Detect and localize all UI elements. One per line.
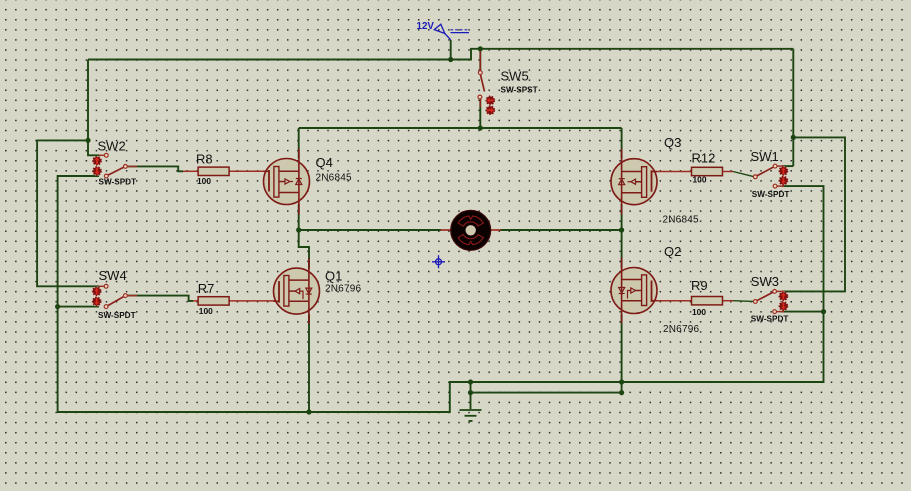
wire SW4 pole stub to R7 [128,296,193,301]
switch SW2 (SW-SPDT) [92,139,136,187]
svg-text:SW-SPST: SW-SPST [501,85,538,94]
svg-text:2N6845: 2N6845 [316,173,352,184]
lead SW2 T1 [99,154,104,156]
ground symbol [460,410,482,421]
wire top-right rail [480,48,793,50]
switch SW5 (SW-SPST) [478,69,538,116]
node Q2 chain junction [619,390,624,395]
node motor left junction [296,227,301,232]
wire 12V stem [450,40,452,60]
lead R7 left [193,300,199,302]
lead SW1 T1 [775,165,784,167]
node ground top junction [468,379,473,384]
wire Q3 drain up [621,128,623,159]
resistor R7 [198,281,229,316]
node SW5 bottom junction [478,125,483,130]
lead SW3 T1 [775,290,784,292]
wire motor right [500,229,622,231]
wire top rail step up [451,49,481,60]
wire left rail down [87,60,89,141]
origin cursor [432,255,445,268]
svg-text:100: 100 [199,306,213,316]
svg-text:SW-SPDT: SW-SPDT [98,311,136,320]
resistor R12 [692,150,723,184]
wire mid rail y128 [299,127,622,129]
lead R8 left [183,170,198,172]
lead R7 right [228,300,275,302]
wire motor left [299,229,441,231]
svg-text:SW-SPDT: SW-SPDT [751,315,789,324]
resistor R9 [691,278,723,317]
transistor Q3 (2N6845) [611,149,657,215]
wire Q4 source to motor node [298,204,300,230]
node Q2 source junction [619,379,624,384]
wire SW2 pole stub to R8 [128,166,183,171]
svg-text:R7: R7 [198,281,215,296]
svg-text:SW5: SW5 [501,69,529,84]
lead motor left [441,229,452,231]
lead SW4 pole [125,295,137,297]
wire gnd bus y382 [471,381,622,383]
svg-text:SW4: SW4 [99,268,127,283]
wire gnd bus y382 to right [622,312,824,382]
lead SW5 top [479,49,481,71]
wire SW2 pole to left bus [58,176,99,307]
resistor R8 [196,152,229,186]
svg-text:Q2: Q2 [664,244,681,259]
wire bottom rail right [309,382,471,412]
wire motor node to Q2 drain [621,230,623,268]
svg-text:100: 100 [692,307,706,317]
node motor right junction [619,227,624,232]
svg-text:R9: R9 [691,278,708,293]
wire R9 to SW3 pole [733,300,754,303]
svg-text:SW1: SW1 [751,149,779,164]
wire ground stem [470,382,472,409]
svg-text:2N6845: 2N6845 [663,215,699,226]
wire right bus up to SW1 throw2 [782,186,824,312]
lead SW3 T2 [775,311,784,313]
switch SW3 (SW-SPDT) [751,274,789,324]
svg-text:SW-SPDT: SW-SPDT [99,178,137,187]
node 12V rail junction [448,57,453,62]
svg-text:100: 100 [693,174,707,184]
wire Q1 source down [308,314,310,412]
svg-text:R12: R12 [692,150,716,165]
lead R8 right [229,170,267,172]
wire Q2 source down [621,314,623,382]
transistor Q1 (2N6796) [274,258,320,324]
wire right rail down [792,49,794,166]
wire left bus to bottom rail [58,307,309,412]
wire SW1 throw1 to rail [782,165,793,167]
svg-text:SW-SPDT: SW-SPDT [752,190,790,199]
wire gnd stub y393 [471,392,622,394]
node left branch junction [85,138,90,143]
svg-text:Q1: Q1 [325,268,342,283]
svg-text:2N6796: 2N6796 [325,283,361,294]
node right branch junction [791,135,796,140]
lead SW5 bottom [479,99,481,107]
lead R9 right [723,300,734,302]
svg-text:R8: R8 [196,152,213,167]
wire SW5 top lead [479,49,481,71]
wire junction A to SW2 throw1 [88,140,99,155]
wire motor node to Q1 drain [299,230,309,269]
wire R12 to SW1 pole [733,172,754,177]
wire top-left rail [88,59,451,61]
svg-text:SW2: SW2 [98,139,126,154]
node SW5 top junction [478,46,483,51]
transistor Q2 (2N6796) [611,258,657,324]
switch SW4 (SW-SPDT) [92,268,136,320]
svg-text:Q3: Q3 [664,135,681,150]
svg-text:Q4: Q4 [316,155,333,170]
wire left branch to SW4 throw1 [37,140,99,286]
lead R12 left [657,171,692,173]
lead motor right [490,229,501,231]
svg-text:100: 100 [197,176,211,186]
node SW3 throw2 junction [821,309,826,314]
lead SW1 T2 [775,185,784,187]
svg-text:SW3: SW3 [751,274,779,289]
switch SW1 (SW-SPDT) [751,149,790,199]
wire SW3 throw2 to bus [782,311,824,313]
transistor Q4 (2N6845) [264,149,310,215]
wire Q4 drain up [298,128,300,159]
motor (DC motor) [451,210,491,250]
lead SW4 T1 [99,285,104,287]
svg-text:12V: 12V [417,21,435,32]
wire Q2 source chain [621,382,623,393]
svg-text:2N6796: 2N6796 [663,324,699,335]
wire junction B branch [782,137,845,291]
wire left bus to SW4 pole [58,306,99,308]
wire Q3 source to motor node [621,204,623,230]
lead R9 left [657,300,692,302]
node Q1 source junction [306,409,311,414]
node SW4 pole junction [55,304,60,309]
wire SW5 bottom lead [479,99,481,128]
power terminal 12V [417,21,470,40]
lead SW2 pole [125,165,137,167]
lead R12 right [723,171,734,173]
node ground stem junction [468,390,473,395]
